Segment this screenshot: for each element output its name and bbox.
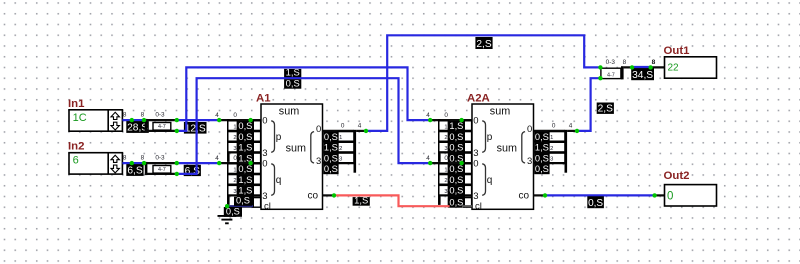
splitter label 4-7 box xyxy=(153,123,171,131)
svg-text:0: 0 xyxy=(316,124,321,135)
value label 2,S net right xyxy=(597,103,614,115)
svg-text:2: 2 xyxy=(233,135,236,141)
A2A p width label 4 xyxy=(426,112,430,119)
A2A pin label q0 xyxy=(473,159,478,170)
svg-text:22: 22 xyxy=(668,63,680,74)
svg-text:0: 0 xyxy=(233,112,237,119)
A2A p0 pin dot xyxy=(459,118,463,122)
A1 q splitter pin label 1 xyxy=(228,164,238,174)
A1 q width label 4 xyxy=(215,155,219,162)
A1 pin label s3 xyxy=(316,156,321,167)
svg-text:1: 1 xyxy=(444,124,447,130)
svg-text:0,S: 0,S xyxy=(449,132,463,142)
svg-text:4-7: 4-7 xyxy=(158,124,166,130)
wire net 0,S xyxy=(177,78,430,174)
A2A q2 value 0,S xyxy=(448,186,465,196)
A2A p input dot xyxy=(428,118,432,122)
svg-text:3: 3 xyxy=(444,189,447,195)
A1 p splitter pin label 0 xyxy=(233,112,237,119)
svg-text:0,S: 0,S xyxy=(238,164,252,174)
A2A p0 pin number box xyxy=(464,121,472,131)
A2A q3 pin number box xyxy=(464,196,472,206)
A2A s1 bit wire xyxy=(534,141,565,143)
A1 pin label p0 xyxy=(262,116,267,127)
value label 0,S net out2 xyxy=(587,196,604,209)
out merger label 4-7 box xyxy=(601,68,621,78)
input In1 box xyxy=(69,110,122,131)
A1 pin label ci xyxy=(264,201,271,212)
svg-text:In2: In2 xyxy=(68,141,84,153)
A1 q input wire xyxy=(218,162,261,164)
A1 s0 bit wire xyxy=(323,130,354,132)
A2A q0 value 0,S xyxy=(448,164,465,174)
svg-text:0,S: 0,S xyxy=(238,132,252,142)
A2A pin label s0 xyxy=(527,124,532,135)
svg-text:0,S: 0,S xyxy=(449,164,463,174)
svg-text:4: 4 xyxy=(569,123,573,130)
In1 splitter out dot 4-7 xyxy=(175,129,179,133)
wire net 2,S A1 sum xyxy=(366,35,600,131)
A1 s3 bit wire xyxy=(323,162,354,164)
A2A p1 bit wire xyxy=(441,130,472,132)
out2 dot xyxy=(652,193,656,197)
label Out2 xyxy=(664,170,690,182)
A2A pin label p3 xyxy=(473,148,478,159)
A1 p3 value 1,S xyxy=(237,153,254,163)
label In2 xyxy=(68,141,84,153)
A1 p0 pin dot xyxy=(248,118,252,122)
svg-text:0: 0 xyxy=(444,155,448,162)
A2A p2 bit wire xyxy=(441,141,472,143)
svg-text:8: 8 xyxy=(123,111,127,118)
A1 p input wire xyxy=(218,119,261,121)
A1 pin label q0 xyxy=(262,159,267,170)
svg-text:6,S: 6,S xyxy=(185,166,200,177)
svg-text:0,S: 0,S xyxy=(535,164,549,174)
A2A pin label co xyxy=(519,191,530,202)
out merger input dot 0-3 xyxy=(598,65,602,69)
splitter out wire 0-3 xyxy=(145,119,177,121)
svg-text:2: 2 xyxy=(233,178,236,184)
A1 q0 pin dot xyxy=(248,161,252,165)
A1 ci pin number box xyxy=(253,198,261,208)
svg-text:0-3: 0-3 xyxy=(155,111,165,118)
A2A q splitter bar xyxy=(438,162,441,205)
svg-text:0,S: 0,S xyxy=(535,132,549,142)
A2A pin label p0 xyxy=(473,116,478,127)
A1 pin label q3 xyxy=(262,191,267,202)
A1 q splitter pin label 0 xyxy=(233,155,237,162)
A2A q splitter pin label 3 xyxy=(439,185,449,195)
A2A co dot xyxy=(543,193,547,197)
A1 q splitter bar xyxy=(227,162,230,205)
A2A p splitter pin label 3 xyxy=(439,142,449,152)
A2A q splitter pin label 0 xyxy=(444,155,448,162)
A2A q1 value 0,S xyxy=(448,175,465,185)
wire net 6,S to A1 q xyxy=(177,162,219,164)
svg-text:q: q xyxy=(487,175,493,186)
A2A p input wire xyxy=(429,119,472,121)
svg-text:6,S: 6,S xyxy=(127,166,142,177)
A1 s merger pin label 3 xyxy=(338,153,354,163)
A2A p2 value 0,S xyxy=(448,142,465,152)
A1 s out width label 4 xyxy=(358,123,362,130)
svg-text:0,S: 0,S xyxy=(324,132,338,142)
A2A s0 value 0,S xyxy=(534,132,549,142)
svg-text:1,S: 1,S xyxy=(354,195,368,206)
svg-text:0,S: 0,S xyxy=(449,198,463,208)
wire 8-bit to Out1 blue xyxy=(632,66,651,68)
A1 p2 bit wire xyxy=(230,141,261,143)
svg-text:0,S: 0,S xyxy=(535,153,549,163)
A1 ci value 0,S xyxy=(237,197,254,207)
svg-text:2,S: 2,S xyxy=(476,39,491,50)
value label 12,S xyxy=(184,122,207,134)
wire net 1,S xyxy=(177,67,430,130)
A2A p splitter bar xyxy=(438,119,441,162)
output Out2 box xyxy=(665,185,717,206)
svg-text:0: 0 xyxy=(341,123,345,130)
A1 group label q xyxy=(276,175,282,186)
svg-text:co: co xyxy=(308,191,319,202)
wire net co1 end xyxy=(462,205,472,207)
A2A q bracket xyxy=(482,164,485,196)
A1 p width label 4 xyxy=(215,112,219,119)
svg-text:1: 1 xyxy=(339,135,342,141)
svg-text:A1: A1 xyxy=(256,93,271,105)
A2A s merger pin label 0 xyxy=(552,123,556,130)
A2A p bracket xyxy=(482,121,485,153)
width label 8 (source pin) xyxy=(123,154,127,161)
svg-text:0,S: 0,S xyxy=(588,198,603,209)
label A1 xyxy=(256,93,271,105)
A2A p3 value 0,S xyxy=(448,153,465,163)
A1 s merger pin label 1 xyxy=(338,132,354,142)
svg-text:3: 3 xyxy=(233,189,236,195)
svg-text:8: 8 xyxy=(623,59,627,66)
A1 s2 value 0,S xyxy=(323,153,338,163)
svg-text:3: 3 xyxy=(316,156,321,167)
svg-text:4: 4 xyxy=(426,155,430,162)
svg-text:1,S: 1,S xyxy=(238,186,252,196)
wire net co2 end xyxy=(655,194,665,196)
A1 s0 value 0,S xyxy=(323,132,338,142)
svg-text:Out1: Out1 xyxy=(664,45,691,57)
A2A s bracket xyxy=(522,132,525,163)
input In2 box xyxy=(69,153,122,174)
A1 co wire xyxy=(323,194,335,196)
A1 p splitter pin label 1 xyxy=(228,121,238,131)
width label 8 (source pin) xyxy=(123,111,127,118)
A2A p3 bit wire xyxy=(441,151,472,153)
label A2A xyxy=(467,93,490,105)
A1 s merger pin label 2 xyxy=(338,142,354,152)
svg-text:1,S: 1,S xyxy=(238,175,252,185)
svg-text:q: q xyxy=(276,175,282,186)
svg-text:1: 1 xyxy=(444,167,447,173)
value label 0,S ci1 stem xyxy=(224,207,242,217)
In2 splitter out dot 0-3 xyxy=(175,161,179,165)
A2A p splitter pin label 1 xyxy=(439,121,449,131)
svg-text:0: 0 xyxy=(262,116,267,127)
svg-text:2: 2 xyxy=(339,146,342,152)
A2A p1 value 0,S xyxy=(448,132,465,142)
width label 8 (merger) xyxy=(623,59,627,66)
ground symbol xyxy=(218,216,237,223)
svg-text:12,S: 12,S xyxy=(185,123,206,134)
A1 q0 value 0,S xyxy=(237,164,254,174)
svg-text:3: 3 xyxy=(444,146,447,152)
wire net co1 red xyxy=(334,195,449,206)
A2A q splitter pin label 1 xyxy=(439,164,449,174)
A1 q1 pin number box xyxy=(253,175,261,185)
svg-text:0,S: 0,S xyxy=(449,143,463,153)
splitter label 4-7 box xyxy=(153,166,171,174)
svg-text:4-7: 4-7 xyxy=(158,167,166,173)
A1 q3 bit wire xyxy=(230,194,261,196)
A1 p splitter pin label 2 xyxy=(228,132,238,142)
A2A q0 pin number box xyxy=(464,164,472,174)
A2A q3 value 0,S xyxy=(448,196,465,206)
A1 s3 value 0,S xyxy=(323,164,338,174)
A1 p1 value 0,S xyxy=(237,132,254,142)
A2A pin label ci xyxy=(475,201,482,212)
splitter label 0-3 xyxy=(155,111,165,118)
splitter bar xyxy=(145,162,148,175)
A2A ci pin number box xyxy=(464,198,472,208)
A1 box xyxy=(261,104,323,209)
A2A p splitter pin label 2 xyxy=(439,132,449,142)
width label 8 (splitter pin) xyxy=(141,154,145,161)
A2A pin label q3 xyxy=(473,191,478,202)
svg-text:sum: sum xyxy=(490,106,510,118)
svg-text:0: 0 xyxy=(473,116,478,127)
A1 q2 pin number box xyxy=(253,185,261,195)
A1 s1 value 1,S xyxy=(323,142,338,152)
wire 8-bit bus xyxy=(122,119,144,121)
svg-text:8: 8 xyxy=(123,154,127,161)
svg-text:8: 8 xyxy=(652,59,656,66)
out merger output wire xyxy=(624,66,665,68)
output Out1 box xyxy=(665,57,717,78)
A1 q2 value 1,S xyxy=(237,186,254,196)
A1 q input dot xyxy=(217,161,221,165)
svg-text:0,S: 0,S xyxy=(449,186,463,196)
svg-text:Out2: Out2 xyxy=(664,170,690,182)
A1 p splitter bar xyxy=(227,119,230,162)
svg-text:0,S: 0,S xyxy=(238,121,252,131)
A1 s1 bit wire xyxy=(323,141,354,143)
svg-text:2: 2 xyxy=(444,135,447,141)
A2A p2 pin number box xyxy=(464,142,472,152)
out merger input dot 4-7 xyxy=(598,76,602,80)
A2A ci value 0,S xyxy=(448,197,465,207)
wire 8-bit bus xyxy=(122,162,144,164)
A2A s2 bit wire xyxy=(534,151,565,153)
A1 group label p xyxy=(276,132,282,143)
A2A s out dot xyxy=(575,129,579,133)
A2A s3 bit wire xyxy=(534,162,565,164)
A2A pin label s3 xyxy=(527,156,532,167)
value label 34,S xyxy=(631,68,654,81)
value label 0,S ci1 horizontal xyxy=(234,196,252,206)
svg-text:co: co xyxy=(519,191,530,202)
svg-text:1C: 1C xyxy=(73,112,87,124)
A2A p0 value 1,S xyxy=(448,121,465,131)
A1 q splitter pin label 2 xyxy=(228,175,238,185)
svg-text:1: 1 xyxy=(233,124,236,130)
svg-text:sum: sum xyxy=(279,106,299,118)
wire net ci1 stem xyxy=(226,206,228,216)
svg-text:sum: sum xyxy=(497,142,517,154)
A1 p1 pin number box xyxy=(253,132,261,142)
svg-text:8: 8 xyxy=(141,154,145,161)
A1 type name sum xyxy=(279,106,299,118)
out dot b xyxy=(648,65,652,69)
svg-text:4: 4 xyxy=(215,112,219,119)
label In1 xyxy=(68,98,85,110)
svg-text:0: 0 xyxy=(262,159,267,170)
A1 p input dot xyxy=(217,118,221,122)
A1 s merger pin label 0 xyxy=(341,123,345,130)
wire net ci1 xyxy=(227,205,253,207)
A2A p splitter pin label 0 xyxy=(444,112,448,119)
A1 pin label co xyxy=(308,191,319,202)
A2A s out width label 4 xyxy=(569,123,573,130)
label Out1 xyxy=(664,45,691,57)
svg-text:0,S: 0,S xyxy=(236,196,250,206)
A1 p2 pin number box xyxy=(253,142,261,152)
A1 q2 bit wire xyxy=(230,184,261,186)
splitter out wire 0-3 xyxy=(145,162,177,164)
splitter out wire 4-7 xyxy=(145,130,177,132)
A1 p3 bit wire xyxy=(230,151,261,153)
A2A q0 pin dot xyxy=(459,161,463,165)
A1 group label sum xyxy=(286,142,306,154)
out dot a xyxy=(630,65,634,69)
A2A s merger pin label 1 xyxy=(549,132,565,142)
In1 bus dot a xyxy=(130,118,134,122)
In2 bus dot a xyxy=(130,161,134,165)
svg-text:1,S: 1,S xyxy=(286,67,300,78)
A2A s merger bar xyxy=(565,130,568,173)
svg-text:0: 0 xyxy=(527,124,532,135)
A1 q splitter pin label 3 xyxy=(228,185,238,195)
A1 p3 pin number box xyxy=(253,153,261,163)
A1 s2 bit wire xyxy=(323,151,354,153)
A1 q3 value 0,S xyxy=(237,196,254,206)
A2A q input wire xyxy=(429,162,472,164)
value label 6,S (A1 q) xyxy=(184,165,201,177)
In2 splitter out dot 4-7 xyxy=(175,172,179,176)
A2A group label q xyxy=(487,175,493,186)
A1 p1 bit wire xyxy=(230,130,261,132)
input In2 spinner arrows xyxy=(111,155,119,173)
ci1 junction dot xyxy=(225,204,229,208)
svg-text:p: p xyxy=(487,132,493,143)
svg-text:2: 2 xyxy=(550,146,553,152)
value label 0,S net xyxy=(284,78,301,89)
out merger bar xyxy=(621,66,624,79)
A1 s merger bar xyxy=(354,130,357,173)
svg-text:0,S: 0,S xyxy=(449,175,463,185)
A1 p2 value 1,S xyxy=(237,142,254,152)
svg-text:p: p xyxy=(276,132,282,143)
A2A q input dot xyxy=(428,161,432,165)
input In1 spinner arrows xyxy=(111,112,119,130)
svg-text:1,S: 1,S xyxy=(238,143,252,153)
svg-text:3: 3 xyxy=(339,157,342,163)
svg-text:4: 4 xyxy=(358,123,362,130)
svg-text:cl: cl xyxy=(264,201,271,212)
svg-text:0,S: 0,S xyxy=(286,78,300,89)
svg-text:0: 0 xyxy=(444,112,448,119)
A1 p splitter pin label 3 xyxy=(228,142,238,152)
svg-text:3: 3 xyxy=(262,148,267,159)
width label 8 (Out1 pin) xyxy=(652,59,656,66)
A2A s3 value 0,S xyxy=(534,164,549,174)
A2A group label sum xyxy=(497,142,517,154)
svg-text:3: 3 xyxy=(550,157,553,163)
svg-text:A2A: A2A xyxy=(467,93,490,105)
svg-text:1,S: 1,S xyxy=(449,121,463,131)
svg-text:1,S: 1,S xyxy=(535,143,549,153)
svg-text:34,S: 34,S xyxy=(632,70,653,81)
svg-text:sum: sum xyxy=(286,142,306,154)
A2A q2 pin number box xyxy=(464,185,472,195)
A2A q width label 4 xyxy=(426,155,430,162)
svg-text:4: 4 xyxy=(215,155,219,162)
svg-text:0-3: 0-3 xyxy=(155,154,165,161)
svg-text:0: 0 xyxy=(233,155,237,162)
A1 p0 pin number box xyxy=(253,121,261,131)
svg-text:0-3: 0-3 xyxy=(606,59,616,66)
A1 s out dot xyxy=(364,129,368,133)
In2 bus dot b xyxy=(142,161,146,165)
wire net co2 xyxy=(545,194,655,196)
A2A q1 pin number box xyxy=(464,175,472,185)
A1 s out wire xyxy=(356,130,366,132)
svg-text:2,S: 2,S xyxy=(598,104,613,115)
svg-text:cl: cl xyxy=(475,201,482,212)
splitter label 0-3 xyxy=(155,154,165,161)
A2A s0 bit wire xyxy=(534,130,565,132)
svg-text:3: 3 xyxy=(527,156,532,167)
A2A p3 pin number box xyxy=(464,153,472,163)
A2A q splitter pin label 2 xyxy=(439,175,449,185)
A2A group label p xyxy=(487,132,493,143)
svg-text:6: 6 xyxy=(73,155,79,167)
A2A s1 value 1,S xyxy=(534,142,549,152)
A2A co wire xyxy=(534,194,546,196)
svg-text:3: 3 xyxy=(233,146,236,152)
In1 splitter out dot 0-3 xyxy=(175,118,179,122)
value label 1,S net red xyxy=(353,195,370,206)
wire net 12,S xyxy=(177,119,219,121)
A2A s2 value 0,S xyxy=(534,153,549,163)
A2A s out wire xyxy=(567,130,577,132)
A1 q1 value 1,S xyxy=(237,175,254,185)
svg-text:0: 0 xyxy=(473,159,478,170)
svg-text:0,S: 0,S xyxy=(324,164,338,174)
value label 2,S net top xyxy=(475,37,492,50)
A2A s merger pin label 2 xyxy=(549,142,565,152)
A2A q2 bit wire xyxy=(441,184,472,186)
wire net 2,S A2A sum xyxy=(577,78,600,131)
svg-text:4-7: 4-7 xyxy=(607,73,615,79)
A1 q1 bit wire xyxy=(230,173,261,175)
A2A p1 pin number box xyxy=(464,132,472,142)
